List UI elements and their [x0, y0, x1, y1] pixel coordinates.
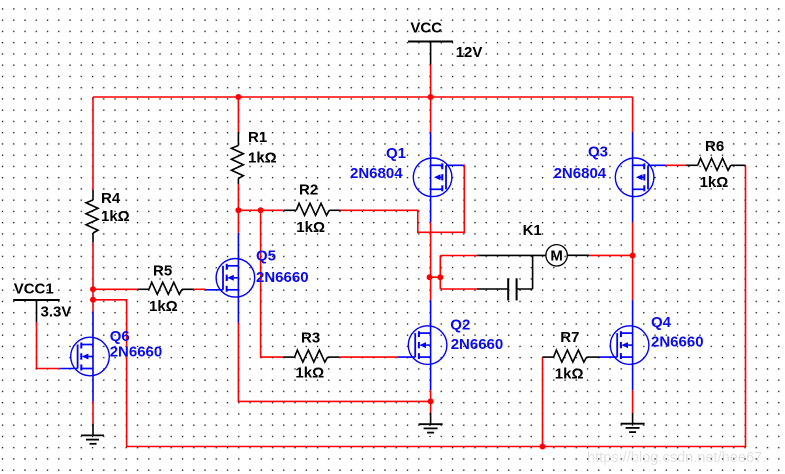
resistor R4: [86, 190, 98, 243]
svg-text:Q2: Q2: [450, 317, 470, 334]
resistor R5: [138, 282, 194, 294]
wire VCC stem to rail: [430, 65, 432, 98]
svg-text:1kΩ: 1kΩ: [248, 150, 277, 167]
svg-text:3.3V: 3.3V: [41, 304, 72, 321]
wire VCC1 to Q6 gate: [37, 322, 61, 369]
resistor R2: [284, 203, 341, 215]
svg-text:M: M: [550, 247, 563, 264]
wire K1 lower branch left: [440, 288, 477, 290]
wire node to R2: [238, 209, 283, 211]
node junction R4 bottom rail: [90, 297, 96, 303]
svg-text:VCC1: VCC1: [14, 280, 54, 297]
ground under Q2: [419, 413, 443, 433]
wire R4 bottom to Q6 drain: [92, 243, 94, 312]
svg-text:1kΩ: 1kΩ: [296, 219, 325, 236]
svg-text:1kΩ: 1kΩ: [555, 366, 584, 383]
svg-text:1kΩ: 1kΩ: [295, 364, 324, 381]
ground under Q6: [81, 424, 104, 444]
svg-text:Q4: Q4: [651, 314, 672, 331]
transistor Q4: [600, 300, 649, 390]
power VCC1 symbol: [13, 300, 60, 322]
wire R1 top to rail: [237, 97, 239, 132]
svg-text:R4: R4: [101, 190, 121, 207]
svg-text:R1: R1: [248, 129, 267, 146]
wire R4 node to R5: [93, 288, 138, 290]
wire R2 to Q1 gate loop: [340, 165, 464, 232]
svg-text:R3: R3: [301, 330, 320, 347]
svg-text:2N6804: 2N6804: [350, 165, 403, 182]
svg-text:R5: R5: [153, 263, 172, 280]
svg-text:Q3: Q3: [588, 144, 608, 161]
svg-text:1kΩ: 1kΩ: [101, 208, 130, 225]
node junction R3 branch: [258, 207, 264, 213]
wire Q3 drain to Q4 drain: [632, 222, 634, 300]
svg-text:R6: R6: [705, 138, 724, 155]
svg-text:2N6660: 2N6660: [110, 343, 163, 360]
wire Q3 gate to R6: [665, 164, 685, 166]
wire K1 right to Q3 drain node: [589, 254, 633, 256]
wire node to bottom rail and up right side to R6: [93, 165, 746, 446]
resistor R3: [283, 350, 339, 362]
node junction R4 R5: [90, 286, 96, 292]
wire Q2 source to ground: [430, 390, 432, 413]
node junction motor left: [427, 274, 433, 280]
wire motor node link: [430, 276, 441, 278]
relay K1 motor: [477, 245, 589, 266]
svg-text:2N6660: 2N6660: [256, 269, 309, 286]
power VCC symbol: [408, 42, 453, 65]
node junction R7 bottom rail: [540, 444, 546, 450]
wire R5 to Q5 gate: [194, 288, 206, 290]
wire Q6 source to ground: [92, 402, 94, 424]
svg-text:2N6660: 2N6660: [451, 336, 504, 353]
capacitor K1 coil: [477, 256, 533, 301]
wire VCC rail top: [93, 96, 633, 98]
wire Q1 drain to Q2 drain: [430, 222, 432, 300]
wire R1 bottom to Q5 drain: [237, 184, 239, 233]
wire rail corner down to Q3: [632, 97, 634, 132]
resistor R7: [543, 350, 601, 362]
wire K1 left branch vertical: [439, 256, 441, 290]
node junction R1 bottom: [235, 207, 241, 213]
svg-text:1kΩ: 1kΩ: [700, 174, 729, 191]
svg-text:2N6804: 2N6804: [554, 165, 607, 182]
svg-text:Q1: Q1: [386, 145, 406, 162]
wire K1 top branch left: [440, 255, 477, 257]
resistor R6: [686, 158, 746, 170]
node junction motor right: [630, 253, 636, 259]
svg-text:K1: K1: [523, 222, 542, 239]
node junction VCC drop: [428, 94, 434, 100]
svg-text:R2: R2: [299, 182, 318, 199]
svg-text:1kΩ: 1kΩ: [149, 298, 178, 315]
wire rail to Q1 drain: [430, 97, 432, 132]
node junction Q2 source: [428, 398, 434, 404]
svg-text:12V: 12V: [456, 44, 483, 61]
node junction K1 left: [437, 274, 443, 280]
wire node to R3: [261, 210, 283, 357]
node junction R1 top: [235, 94, 241, 100]
transistor Q1: [413, 132, 463, 222]
svg-text:VCC: VCC: [410, 20, 442, 37]
transistor Q5: [205, 233, 254, 323]
svg-text:Q5: Q5: [256, 248, 276, 265]
transistor Q6: [60, 312, 109, 402]
wire Q4 source to ground: [632, 390, 634, 413]
wire rail to R4 top: [92, 97, 94, 190]
svg-text:2N6660: 2N6660: [651, 333, 704, 350]
resistor R1: [231, 132, 243, 184]
wire R7 left to bottom rail: [542, 357, 544, 446]
ground under Q4: [621, 413, 645, 432]
wire Q5 source to Q2 source node: [238, 323, 430, 402]
svg-text:https://blog.csdn.net/hee67.: https://blog.csdn.net/hee67.: [587, 450, 766, 466]
wire R3 to Q2 gate: [339, 356, 397, 358]
transistor Q3: [615, 132, 665, 222]
transistor Q2: [398, 300, 447, 390]
svg-text:R7: R7: [560, 329, 579, 346]
